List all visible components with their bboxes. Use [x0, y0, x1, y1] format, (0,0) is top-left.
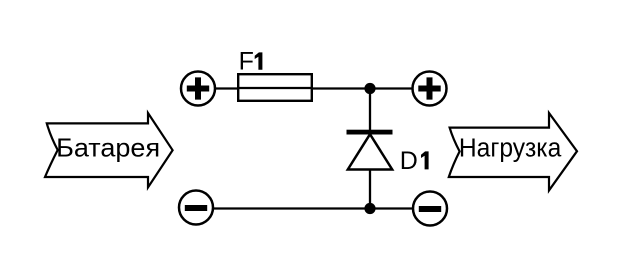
node junction bottom [364, 203, 375, 214]
battery positive terminal [181, 72, 215, 106]
svg-text:F: F [239, 48, 254, 76]
load arrow [449, 113, 577, 190]
diode D1 triangle [348, 134, 392, 169]
svg-text:Батарея: Батарея [56, 133, 160, 163]
svg-text:Нагрузка: Нагрузка [459, 134, 562, 162]
fuse F1 body [238, 74, 312, 101]
svg-text:D: D [400, 147, 418, 175]
wire diode branch vertical [369, 89, 371, 209]
load positive terminal [413, 72, 447, 106]
load negative terminal [413, 192, 447, 226]
wire through fuse [237, 87, 313, 89]
diode D1 cathode bar [347, 130, 393, 135]
battery negative terminal [179, 191, 213, 225]
node junction top [364, 83, 375, 94]
wire top positive rail [198, 87, 430, 89]
wire bottom negative rail [196, 207, 430, 209]
battery arrow [45, 113, 173, 187]
